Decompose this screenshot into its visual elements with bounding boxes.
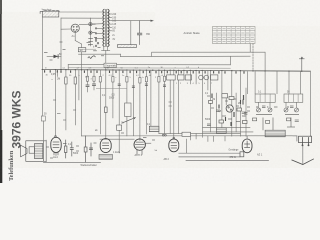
wire xyxy=(74,70,76,125)
junction dots xyxy=(42,69,303,72)
rail xyxy=(203,131,253,133)
coupling parts xyxy=(65,136,93,162)
transformer left taps xyxy=(95,12,104,39)
mains transformer T1 xyxy=(103,9,109,46)
wire xyxy=(56,70,58,77)
script label xyxy=(88,56,95,59)
wire xyxy=(258,102,260,108)
under-bus component marks xyxy=(53,76,166,120)
osc loop 2 xyxy=(284,94,303,102)
wire xyxy=(215,93,217,128)
wire xyxy=(221,71,223,128)
capacitor C5 xyxy=(93,84,96,86)
bottom-left texture marks xyxy=(46,133,155,158)
dial cord wire xyxy=(252,44,254,71)
left page edge xyxy=(0,0,2,183)
wire xyxy=(249,44,251,52)
scattered value labels xyxy=(44,45,290,156)
trimmer caps row xyxy=(257,108,299,112)
rail xyxy=(203,127,250,129)
wire xyxy=(41,70,43,117)
mains plug xyxy=(292,136,314,165)
wire xyxy=(120,54,122,56)
rail xyxy=(186,160,269,162)
wire xyxy=(79,53,121,55)
wire xyxy=(285,102,287,108)
potentiometer P1 xyxy=(149,70,159,132)
resistor R30 xyxy=(78,48,86,52)
switch contacts xyxy=(162,134,166,136)
diode D1 xyxy=(47,55,61,59)
dial lamp La2 xyxy=(89,31,95,34)
capacitor block xyxy=(41,116,45,121)
wire xyxy=(231,112,233,136)
wire xyxy=(189,70,191,84)
rail xyxy=(100,138,134,140)
wire xyxy=(79,23,102,26)
bus label box xyxy=(104,63,117,67)
wire xyxy=(86,70,88,85)
table entries xyxy=(214,29,254,42)
transformer bottom leads xyxy=(102,47,110,71)
antenna T xyxy=(299,57,304,71)
wire xyxy=(183,70,185,75)
arrowhead xyxy=(151,20,154,22)
wire xyxy=(59,11,103,13)
wire xyxy=(169,70,171,133)
wire xyxy=(130,21,132,45)
cell box xyxy=(99,155,113,160)
grid cap wires xyxy=(55,136,175,144)
wire xyxy=(173,70,175,139)
wire to dial xyxy=(112,20,151,22)
lower bus xyxy=(42,70,310,72)
IF can 5 xyxy=(265,130,285,137)
mixer tube V3 socket xyxy=(134,139,145,155)
detector cluster wires xyxy=(210,71,212,132)
rectifier tube V5 xyxy=(242,139,252,153)
wire xyxy=(139,70,141,140)
IF can 4 xyxy=(210,75,218,80)
wire xyxy=(41,17,43,70)
paper background xyxy=(0,0,320,183)
IF can 2 xyxy=(178,75,184,80)
antenna coil L1 xyxy=(40,10,59,17)
wire xyxy=(42,121,44,141)
capacitor box xyxy=(222,94,228,98)
capacitor C4 xyxy=(86,85,89,87)
heater rail xyxy=(179,156,240,158)
wire xyxy=(55,70,57,138)
tube V6 socket xyxy=(226,105,233,112)
wire xyxy=(178,70,180,133)
output tube V1 xyxy=(51,137,61,155)
ballast box xyxy=(240,152,244,157)
wire xyxy=(195,71,197,85)
voltage table xyxy=(213,27,256,44)
wire xyxy=(229,56,231,64)
wire xyxy=(121,55,251,57)
driver tube V2 xyxy=(100,139,111,153)
wire xyxy=(269,102,271,108)
wire xyxy=(235,93,237,132)
wire xyxy=(43,140,46,142)
wire xyxy=(288,71,290,94)
wire xyxy=(239,71,241,137)
tuning gang loop xyxy=(123,70,136,136)
wave switch line xyxy=(44,161,101,163)
trimmer cluster marks xyxy=(256,106,299,130)
wire xyxy=(81,70,83,136)
resistor R2 xyxy=(65,77,67,84)
osc feed wires xyxy=(152,52,301,136)
triode U1 socket xyxy=(71,24,79,32)
wire xyxy=(78,70,80,100)
detector dense parts xyxy=(207,94,248,127)
wire xyxy=(60,18,62,70)
wire xyxy=(93,86,95,90)
speaker xyxy=(21,141,44,162)
wire xyxy=(61,17,103,19)
wire xyxy=(207,71,209,90)
arrow xyxy=(123,118,136,123)
wire xyxy=(164,70,166,133)
wire xyxy=(61,28,71,30)
transformer right taps xyxy=(108,14,112,31)
heater rail xyxy=(179,152,240,154)
wire xyxy=(65,70,67,130)
rail xyxy=(159,133,241,135)
wire xyxy=(296,102,298,108)
lamp wire xyxy=(90,18,92,46)
terminal posts xyxy=(89,39,99,47)
dial lamp La1 xyxy=(89,23,95,26)
wire xyxy=(231,71,233,105)
IF can 1 xyxy=(167,75,176,80)
wire xyxy=(309,71,311,136)
osc loop 1 xyxy=(255,94,275,102)
wire xyxy=(246,136,248,139)
capacitor C6 xyxy=(117,70,122,153)
under-bus label band xyxy=(45,67,213,85)
wire xyxy=(86,87,88,92)
wire xyxy=(81,52,83,70)
wire xyxy=(93,70,95,84)
rail xyxy=(82,135,297,137)
top cluster texture marks xyxy=(44,38,104,61)
wire xyxy=(81,44,83,48)
wire xyxy=(245,88,247,136)
bus tick marks xyxy=(45,70,244,74)
IF tube V4 xyxy=(169,139,179,152)
chassis bar xyxy=(118,45,137,48)
wire xyxy=(112,70,114,118)
extra cluster parts xyxy=(242,100,299,123)
wire xyxy=(158,70,160,133)
wire xyxy=(264,71,266,94)
resistor R3 xyxy=(74,77,76,84)
wire xyxy=(43,160,46,162)
tap voltage labels xyxy=(112,14,117,41)
middle rail xyxy=(68,67,230,69)
wire xyxy=(75,41,81,45)
wire xyxy=(99,70,101,134)
wire xyxy=(145,70,147,134)
wire xyxy=(67,65,69,70)
wire xyxy=(225,98,227,105)
IF can 3 xyxy=(185,75,191,80)
volume pot P2 xyxy=(216,128,226,134)
wire xyxy=(201,71,203,138)
capacitor C1 xyxy=(137,21,141,45)
wire xyxy=(74,32,76,40)
upper bus xyxy=(68,64,230,66)
wire xyxy=(185,139,187,153)
scan noise overlay xyxy=(0,0,1,1)
trimmer pair xyxy=(199,75,204,80)
rail stubs xyxy=(190,134,225,142)
detector cluster texture marks xyxy=(207,95,250,122)
wire xyxy=(45,140,47,162)
resistor R4 xyxy=(105,70,108,139)
wire xyxy=(132,70,134,136)
